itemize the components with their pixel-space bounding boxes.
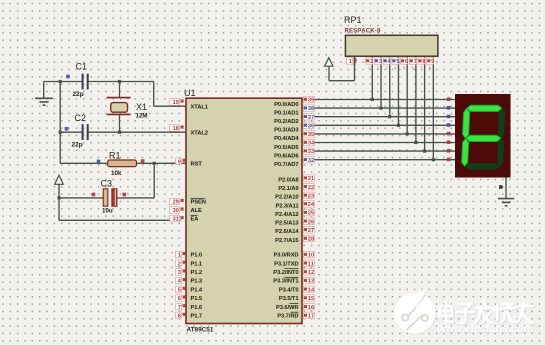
svg-text:10: 10	[308, 253, 314, 259]
wire P0.6 to display segment	[302, 150, 455, 152]
display pin marker 0	[447, 97, 451, 101]
svg-text:P1.3: P1.3	[191, 279, 203, 285]
pin number 7 P1.6	[176, 304, 186, 311]
pin number 10 P3.0	[304, 251, 315, 258]
junction RP1 pin 5 / P0.3	[397, 124, 400, 127]
junction RP1 pin 8 / P0.6	[423, 150, 426, 153]
pin number RP1 6	[401, 58, 409, 65]
segment a (lit)	[467, 105, 502, 111]
svg-text:P0.2/AD2: P0.2/AD2	[274, 119, 298, 125]
display common pin marker	[499, 185, 503, 189]
svg-text:P0.3/AD3: P0.3/AD3	[274, 128, 299, 134]
svg-text:P0.1/AD1: P0.1/AD1	[274, 110, 299, 116]
pin number 37 P0.2	[304, 114, 315, 121]
svg-text:P2.4/A12: P2.4/A12	[275, 212, 298, 218]
wire C1 right to corner	[88, 81, 154, 83]
wire RP1 pin 3 down to P0.1 net	[380, 56, 382, 108]
svg-text:26: 26	[308, 219, 314, 225]
svg-text:23: 23	[308, 193, 314, 199]
svg-text:15: 15	[308, 296, 314, 302]
display pin marker 5	[447, 140, 451, 144]
watermark logo	[394, 290, 436, 335]
svg-text:PSEN: PSEN	[191, 200, 206, 206]
svg-text:12M: 12M	[136, 113, 148, 120]
junction RP1 pin 6 / P0.4	[406, 132, 409, 135]
capacitor C1	[83, 74, 88, 90]
svg-text:P3.7/RD: P3.7/RD	[277, 314, 298, 320]
junction rail / XTAL2 row	[59, 131, 62, 134]
pin number 38 P0.1	[304, 105, 315, 112]
svg-text:P3.6/WR: P3.6/WR	[276, 305, 299, 311]
pin number 14 P3.4	[304, 286, 316, 293]
pin marker C3 left	[92, 193, 96, 197]
svg-text:C2: C2	[75, 113, 87, 123]
wire RP1 pin1 stub	[354, 56, 356, 65]
svg-text:RP1: RP1	[344, 15, 362, 25]
svg-text:16: 16	[308, 305, 314, 311]
segment f (lit)	[463, 108, 470, 138]
svg-text:ALE: ALE	[191, 208, 203, 214]
resistor pack RP1 body	[345, 35, 438, 56]
svg-text:3: 3	[379, 59, 382, 65]
pin marker R1 left	[97, 160, 101, 164]
pin number 4 P1.3	[176, 277, 186, 284]
segment c (unlit)	[497, 138, 504, 166]
wire P0.3 to display segment	[302, 124, 455, 126]
svg-text:P1.0: P1.0	[191, 253, 203, 259]
svg-text:22p: 22p	[73, 91, 84, 98]
wire up to VCC arrow	[328, 66, 330, 81]
pin number 17 P3.7	[304, 312, 315, 319]
pin number 29 PSEN	[170, 198, 184, 205]
svg-text:P1.4: P1.4	[191, 287, 203, 293]
svg-text:32: 32	[308, 158, 314, 164]
crystal X1	[107, 82, 131, 133]
pin number RP1 3	[374, 58, 382, 65]
U1 left pin names	[191, 104, 209, 319]
pin number 30 ALE	[170, 207, 184, 214]
svg-text:33: 33	[308, 149, 314, 155]
wire P0.5 to display segment	[302, 142, 455, 144]
pin number 13 P3.3	[304, 277, 315, 284]
svg-text:P2.1/A9: P2.1/A9	[278, 186, 299, 192]
pin number 39 P0.0	[304, 96, 315, 103]
svg-text:P2.5/A13: P2.5/A13	[275, 221, 299, 227]
svg-text:P1.7: P1.7	[191, 314, 203, 320]
wire ground rail down	[59, 82, 61, 164]
pin number RP1 9	[427, 58, 435, 65]
svg-text:P1.5: P1.5	[191, 296, 203, 302]
capacitor C2	[83, 124, 88, 140]
pin number RP1 7	[409, 58, 417, 65]
watermark text dianzifashaoyou	[440, 302, 534, 324]
display pin marker 4	[447, 132, 451, 136]
pin marker C1	[66, 75, 70, 79]
svg-text:6: 6	[405, 59, 408, 65]
pin number 6 P1.5	[176, 295, 186, 302]
wire P0.1 to display segment	[302, 107, 455, 109]
wire RP1 pin 6 down to P0.4 net	[406, 56, 408, 134]
svg-text:P0.6/AD6: P0.6/AD6	[274, 153, 299, 159]
wire VCC to EA pin 31	[59, 219, 181, 221]
IC U1 AT89C51 body	[186, 98, 302, 323]
display pin marker 2	[447, 115, 451, 119]
seven segment display body	[455, 94, 511, 178]
ground symbol GND (oscillator)	[35, 98, 53, 105]
pin number 31 EA	[170, 215, 184, 222]
pin number RP1 5	[392, 58, 400, 65]
svg-text:www.elecfans.com: www.elecfans.com	[436, 323, 533, 335]
svg-text:3: 3	[178, 270, 181, 276]
wire RP1 pin 8 down to P0.6 net	[424, 56, 426, 151]
svg-text:P3.5/T1: P3.5/T1	[279, 296, 299, 302]
power terminal VCC (reset circuit)	[55, 175, 64, 186]
svg-text:22p: 22p	[72, 142, 83, 149]
svg-text:7: 7	[178, 305, 181, 311]
svg-text:P1.2: P1.2	[191, 270, 203, 276]
svg-text:7: 7	[414, 59, 417, 65]
svg-text:17: 17	[308, 314, 314, 320]
pin number 24 P2.3	[304, 201, 316, 208]
svg-text:P3.3/INT1: P3.3/INT1	[273, 279, 299, 285]
svg-text:P2.3/A11: P2.3/A11	[275, 203, 299, 209]
junction VCC stem / C3 row	[57, 196, 60, 199]
pin number RP1 1	[347, 58, 357, 65]
pin number 11 P3.1	[304, 260, 315, 267]
wire RP1 pin1 to VCC	[329, 80, 355, 82]
svg-text:X1: X1	[136, 102, 147, 112]
svg-text:21: 21	[308, 176, 314, 182]
svg-text:P3.2/INT0: P3.2/INT0	[273, 270, 298, 276]
wire VCC stem to C3 left plate	[59, 197, 103, 199]
pin number 21 P2.0	[304, 175, 315, 182]
junction RP1 pin 2 / P0.0	[371, 98, 374, 101]
svg-text:28: 28	[308, 237, 314, 243]
svg-text:37: 37	[308, 115, 314, 121]
svg-text:10k: 10k	[111, 170, 122, 177]
pin number 9 RST	[176, 158, 186, 165]
junction crystal bottom / XTAL2 net	[118, 131, 121, 134]
segment b (unlit)	[498, 108, 505, 138]
svg-text:25: 25	[308, 211, 314, 217]
svg-text:38: 38	[308, 106, 314, 112]
svg-text:P2.7/A15: P2.7/A15	[275, 238, 299, 244]
pin number 23 P2.2	[304, 192, 315, 199]
svg-text:19: 19	[173, 100, 179, 106]
svg-text:EA: EA	[191, 217, 200, 223]
svg-text:11: 11	[308, 261, 314, 267]
pin marker C3 right	[123, 193, 127, 197]
svg-text:RST: RST	[191, 161, 203, 167]
ground symbol (display common)	[498, 199, 514, 206]
pin number 27 P2.6	[304, 227, 315, 234]
svg-text:XTAL1: XTAL1	[191, 104, 209, 110]
pin number 5 P1.4	[176, 286, 186, 293]
svg-text:39: 39	[308, 98, 314, 104]
pin number RP1 8	[418, 58, 426, 65]
pin number 18 XTAL2	[170, 125, 184, 132]
wire C3 right plate to corner	[117, 197, 154, 199]
svg-text:R1: R1	[109, 151, 121, 161]
pin marker R1 right	[141, 159, 145, 163]
svg-text:9: 9	[178, 159, 181, 165]
svg-text:C3: C3	[101, 179, 113, 189]
pin number 12 P3.2	[304, 269, 315, 276]
power terminal VCC (RP1 common)	[325, 58, 334, 66]
wire ground stem	[43, 82, 45, 98]
wire P0.4 to display segment	[302, 133, 455, 135]
segment g (lit)	[466, 135, 501, 141]
svg-text:P0.4/AD4: P0.4/AD4	[274, 136, 299, 142]
wire P0.0 to display segment	[302, 99, 455, 101]
svg-text:2: 2	[370, 59, 373, 65]
wire gnd to C1 left	[44, 81, 83, 83]
pin number 1 P1.0	[176, 251, 186, 258]
pin number 35 P0.4	[304, 131, 315, 138]
svg-text:P2.6/A14: P2.6/A14	[275, 229, 299, 235]
junction crystal top / XTAL1 net	[118, 80, 121, 83]
svg-text:22: 22	[308, 185, 314, 191]
svg-text:P3.1/TXD: P3.1/TXD	[274, 261, 298, 267]
pin number 16 P3.6	[304, 304, 315, 311]
svg-text:P0.5/AD5: P0.5/AD5	[274, 145, 299, 151]
pin number 33 P0.6	[304, 148, 315, 155]
display pin marker 1	[447, 106, 451, 110]
pin number 2 P1.1	[176, 260, 186, 267]
svg-text:34: 34	[308, 141, 315, 147]
wire rail to C2 left	[60, 131, 82, 133]
svg-text:14: 14	[308, 287, 315, 293]
svg-text:P3.0/RXD: P3.0/RXD	[274, 253, 299, 259]
wire RST row down to C3 row	[153, 163, 155, 198]
svg-text:29: 29	[173, 200, 179, 206]
svg-text:12: 12	[308, 270, 314, 276]
wire RP1 pin 4 down to P0.2 net	[389, 56, 391, 116]
wire corner down to XTAL1 row	[153, 82, 155, 107]
svg-text:5: 5	[396, 59, 399, 65]
junction RST row / C3 branch	[153, 162, 156, 165]
wire P0.7 to display segment	[302, 159, 455, 161]
pin number 34 P0.5	[304, 139, 316, 146]
svg-text:18: 18	[173, 126, 179, 132]
pin number 19 XTAL1	[170, 99, 184, 106]
svg-text:P3.4/T0: P3.4/T0	[279, 287, 299, 293]
junction RP1 pin 9 / P0.7	[432, 158, 435, 161]
pin number 32 P0.7	[304, 157, 315, 164]
svg-text:U1: U1	[184, 88, 196, 98]
wire VCC stem	[58, 185, 60, 221]
wire RP1 pin 5 down to P0.3 net	[397, 56, 399, 125]
svg-text:9: 9	[431, 59, 434, 65]
wire RP1 pin 9 down to P0.7 net	[432, 56, 434, 160]
wire display common to ground	[505, 178, 507, 199]
pin number 15 P3.5	[304, 295, 315, 302]
pin number 3 P1.2	[176, 269, 186, 276]
svg-text:10u: 10u	[102, 208, 113, 215]
segment e (lit)	[462, 138, 469, 166]
junction rail / top wire	[59, 80, 62, 83]
svg-text:13: 13	[308, 279, 314, 285]
pin number 8 P1.7	[176, 312, 186, 319]
display pin marker 7	[447, 158, 451, 162]
svg-text:RESPACK-8: RESPACK-8	[345, 29, 381, 35]
wire R1 right to RST pin 9	[137, 162, 187, 164]
svg-text:8: 8	[178, 314, 181, 320]
pin marker C2	[65, 127, 69, 131]
junction RP1 pin 4 / P0.2	[388, 115, 391, 118]
pin number 26 P2.5	[304, 218, 315, 225]
display pin marker 3	[447, 123, 451, 127]
display pin marker 6	[447, 149, 451, 153]
svg-text:C1: C1	[76, 62, 88, 72]
svg-text:P1.1: P1.1	[191, 261, 203, 267]
segment d (unlit)	[465, 163, 500, 169]
svg-text:8: 8	[422, 59, 425, 65]
svg-text:1: 1	[349, 59, 352, 65]
svg-text:35: 35	[308, 132, 314, 138]
svg-text:AT89C51: AT89C51	[187, 327, 214, 334]
wire RP1 pin1 down	[354, 66, 356, 81]
svg-text:XTAL2: XTAL2	[191, 130, 208, 136]
svg-text:P1.6: P1.6	[191, 305, 203, 311]
resistor R1	[108, 160, 137, 167]
wire rail corner to R1 left	[60, 162, 107, 164]
pin number 22 P2.1	[304, 184, 315, 191]
wire P0.2 to display segment	[302, 116, 455, 118]
svg-text:36: 36	[308, 123, 314, 129]
svg-text:P2.2/A10: P2.2/A10	[275, 195, 298, 201]
svg-text:P0.7/AD7: P0.7/AD7	[274, 162, 298, 168]
junction RP1 pin 3 / P0.1	[379, 107, 382, 110]
pin number 36 P0.3	[304, 122, 315, 129]
svg-text:6: 6	[178, 296, 181, 302]
wire RP1 pin 7 down to P0.5 net	[415, 56, 417, 142]
svg-text:5: 5	[178, 287, 181, 293]
wire C2 right to XTAL2 pin 18	[88, 131, 186, 133]
svg-text:2: 2	[178, 261, 181, 267]
svg-text:31: 31	[173, 217, 179, 223]
svg-text:1: 1	[178, 253, 181, 259]
svg-text:24: 24	[308, 202, 315, 208]
svg-text:30: 30	[173, 208, 179, 214]
svg-text:27: 27	[308, 228, 314, 234]
pin number RP1 2	[366, 58, 374, 65]
pin number 25 P2.4	[304, 209, 315, 216]
U1 right pin names	[273, 102, 299, 320]
svg-text:P0.0/AD0: P0.0/AD0	[274, 102, 298, 108]
wire RP1 pin 2 down to P0.0 net	[371, 56, 373, 99]
pin number RP1 4	[383, 58, 391, 65]
pin number 28 P2.7	[304, 235, 315, 242]
junction RP1 pin 7 / P0.5	[414, 141, 417, 144]
svg-text:P2.0/A8: P2.0/A8	[278, 178, 299, 184]
capacitor C3 (electrolytic 10uF)	[103, 189, 117, 206]
wire to XTAL1 pin 19	[154, 105, 186, 107]
